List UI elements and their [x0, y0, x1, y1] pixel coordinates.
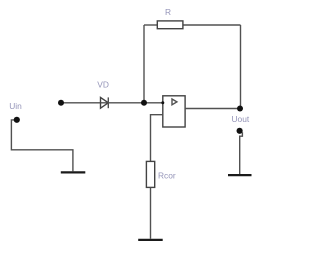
wire Uin terminal lead — [11, 120, 73, 171]
node junction dot at output — [237, 106, 243, 112]
wire Rcor to ground — [150, 187, 152, 238]
op-amp U1 body — [163, 96, 185, 127]
wire feedback top right segment — [183, 24, 241, 26]
ground (Uout) — [228, 174, 252, 176]
wire main input horizontal — [61, 102, 163, 104]
ground (Rcor) — [138, 239, 163, 241]
wire op-amp output — [185, 108, 240, 110]
svg-text:Uout: Uout — [232, 114, 250, 124]
resistor Rcor — [146, 161, 154, 187]
wire feedback top left segment — [144, 24, 157, 26]
op-amp U1 triangle symbol — [172, 99, 177, 105]
node junction dot at op-amp input — [141, 100, 147, 106]
svg-text:R: R — [165, 7, 171, 17]
wire feedback left vertical — [143, 25, 145, 103]
diode VD — [101, 97, 109, 108]
resistor R — [157, 21, 183, 29]
svg-text:Uin: Uin — [9, 101, 22, 111]
svg-text:Rcor: Rcor — [158, 170, 176, 180]
wire op-amp inverting input — [151, 115, 163, 162]
svg-text:VD: VD — [97, 80, 109, 90]
terminal Uin — [14, 117, 20, 123]
terminal Uout — [237, 128, 243, 134]
wire feedback right vertical — [240, 25, 242, 109]
ground (Uin) — [61, 171, 86, 173]
node dot left end of input wire — [58, 100, 64, 106]
wire Uout terminal lead — [240, 132, 243, 174]
op-amp input pin dot — [161, 101, 164, 104]
